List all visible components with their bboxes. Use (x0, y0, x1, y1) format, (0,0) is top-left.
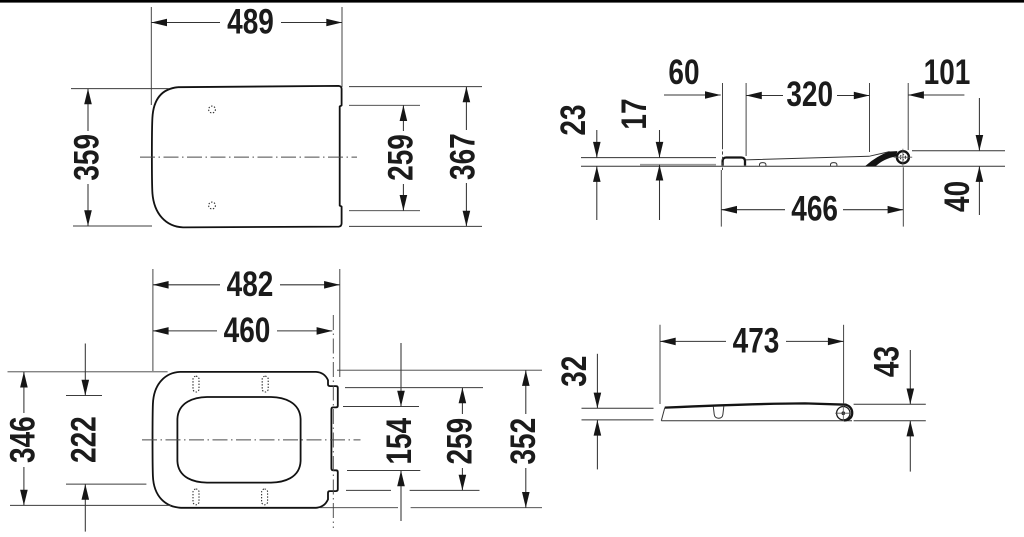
dim 367 arrow up (463, 87, 471, 103)
lid profile left end (661, 408, 665, 421)
lid profile top edge (thick) (665, 403, 852, 420)
svg-text:460: 460 (224, 310, 271, 350)
pin top reference line (912, 150, 1005, 152)
hinge arm (thick) (866, 152, 897, 166)
dim 222 ext top (66, 395, 102, 397)
svg-text:222: 222 (64, 416, 104, 463)
dim 320 line (746, 95, 783, 97)
hinge pin center mark (842, 411, 846, 415)
hinge pin inner circle (900, 155, 905, 160)
dim 154 ext bottom (347, 470, 420, 472)
svg-text:466: 466 (791, 189, 838, 229)
ext line bumper left (dashed through part) (722, 83, 724, 146)
svg-text:367: 367 (442, 133, 482, 180)
dim 259 arrow up (400, 105, 408, 121)
dim 473 ext right (843, 325, 845, 404)
seat underside gray line (640, 164, 716, 166)
svg-text:43: 43 (866, 346, 906, 377)
dim 32 arrow down (594, 393, 602, 409)
dim 43 shafts (909, 350, 911, 404)
svg-text:489: 489 (227, 1, 274, 41)
dim 466 ext left handled above, line (721, 209, 785, 211)
dim 259b ext top (345, 387, 483, 389)
dim 359 arrow up (84, 89, 92, 105)
lid profile bottom edge (661, 420, 852, 422)
dim 40 arrow down (976, 135, 984, 151)
bumper slot top-right (262, 376, 268, 392)
dim 482 arrow right (324, 281, 340, 289)
centerline horizontal (142, 439, 361, 441)
dim 367 line (465, 87, 467, 130)
dim 352 ext top (337, 369, 542, 371)
svg-text:473: 473 (733, 320, 780, 360)
dim 359 extension top (71, 88, 169, 90)
dim 17 shafts (659, 130, 661, 158)
dim 367 extension top (349, 86, 482, 88)
dim 320 arrow left (746, 92, 762, 100)
svg-text:259: 259 (381, 134, 421, 181)
dim 367 extension bottom (349, 225, 482, 227)
dim 482 ext left (152, 269, 154, 371)
dim 40 arrow up (976, 166, 984, 182)
dim 489 arrow left (151, 19, 167, 27)
svg-text:320: 320 (786, 74, 833, 114)
dim 473 arrow right (828, 338, 844, 346)
dim 460 arrow right (317, 327, 333, 335)
svg-text:23: 23 (553, 104, 593, 135)
dim 466 ext right (902, 167, 904, 226)
svg-text:352: 352 (503, 418, 543, 465)
dim 32 arrow up (594, 420, 602, 436)
dim 466 arrow right (888, 206, 904, 214)
ext line hinge arm start (869, 83, 871, 152)
dim 43 arrow down (907, 389, 915, 405)
dim 482 line (153, 284, 220, 286)
lid outline (top view) (152, 86, 342, 228)
dim 259 arrow down (400, 195, 408, 211)
dim 473 line (660, 340, 726, 342)
dim 259 line (402, 105, 404, 131)
dim 17 arrow up (656, 165, 664, 181)
hinge pin circle (837, 407, 850, 420)
dim 489 arrow right (326, 19, 342, 27)
svg-text:482: 482 (227, 264, 274, 304)
dim 60 arrow (705, 91, 721, 99)
svg-text:154: 154 (379, 418, 419, 465)
dim 473 arrow left (660, 338, 676, 346)
seat top reference line (581, 157, 716, 159)
dim 259 extension bottom (349, 210, 420, 212)
dim 346 ext bottom (10, 504, 171, 506)
dim 259b ext bottom (346, 489, 391, 491)
dim 359 extension bottom (73, 225, 152, 227)
dim 259b shafts (461, 388, 463, 414)
dim 259 extension top (349, 104, 420, 106)
centerline horizontal (140, 156, 357, 158)
top black border bar (0, 0, 1024, 3)
pan reference line bottom (581, 165, 1005, 167)
bumper pocket (u shape) (713, 406, 724, 418)
ext line bumper right (745, 83, 747, 156)
svg-text:17: 17 (614, 98, 654, 129)
dim 222 shafts (84, 344, 86, 396)
hinge pin crosshair (894, 156, 913, 158)
dim 101 arrow (908, 91, 924, 99)
svg-text:346: 346 (2, 416, 42, 463)
svg-text:359: 359 (66, 134, 106, 181)
dim 40 shafts (978, 98, 980, 151)
dim 346 shafts (23, 372, 25, 413)
bumper slot top-left (193, 376, 199, 392)
dim 259b arrow up (459, 388, 467, 404)
dim 32 shafts (596, 354, 598, 409)
dim 482 ext right (339, 269, 341, 377)
dim 154 arrow up (397, 471, 405, 487)
left reference line lower (582, 419, 654, 421)
dim 482 arrow left (153, 281, 169, 289)
seat ring outer outline (153, 372, 338, 508)
svg-text:40: 40 (937, 181, 977, 212)
hinge pin crosshair (835, 412, 851, 414)
dim 154 arrow down (397, 391, 405, 407)
dim 320 arrow right (854, 92, 870, 100)
slot mark left (760, 163, 766, 166)
dim 352 arrow down (522, 492, 530, 508)
bumper slot bottom-right (262, 489, 268, 505)
dim 222 ext bottom (66, 483, 146, 485)
screw hole lower (209, 202, 216, 209)
dim 460 line (153, 330, 217, 332)
dim 259b arrow down (459, 475, 467, 491)
dim 154 ext top (343, 406, 419, 408)
dim 60 line (664, 94, 721, 96)
svg-text:32: 32 (554, 356, 594, 387)
svg-text:101: 101 (924, 52, 971, 92)
dim 359 arrow down (84, 210, 92, 226)
right reference line upper (854, 403, 926, 405)
hinge pin outer ring (897, 151, 909, 163)
dim 17 arrow down (656, 142, 664, 158)
dim 346 ext top (8, 371, 168, 373)
dim 222 arrow down (82, 380, 90, 396)
bumper slot bottom-left (193, 489, 199, 505)
dim 23 shafts (596, 130, 598, 158)
dim 473 ext left (659, 325, 661, 404)
screw hole upper (209, 106, 216, 113)
dim 489 extension line left (150, 7, 152, 105)
dim 352 ext bottom (320, 507, 398, 509)
left reference line upper (582, 407, 654, 409)
slot mark right (831, 163, 837, 166)
dim 359 line (87, 89, 89, 131)
bumper (side view) (723, 158, 745, 166)
ext line pin right (907, 83, 909, 150)
seat ring inner opening (177, 397, 300, 483)
dim 23 arrow down (593, 142, 601, 158)
dim 23 arrow up (593, 166, 601, 182)
dim 43 arrow up (907, 421, 915, 437)
dim 346 arrow down (20, 490, 28, 506)
right reference line lower (854, 420, 926, 422)
dim 352 arrow up (522, 370, 530, 386)
dim 101 line (908, 94, 964, 96)
hinge axis centerline vertical (332, 315, 334, 528)
dim 346 arrow up (20, 372, 28, 388)
dim 352 shafts (525, 370, 527, 414)
dim 489 extension line right (341, 7, 343, 87)
dim 460 arrow left (153, 327, 169, 335)
dim 154 shafts (400, 343, 402, 407)
svg-text:60: 60 (668, 52, 699, 92)
dim 466 arrow left (721, 206, 737, 214)
svg-text:259: 259 (440, 418, 480, 465)
dim 222 arrow up (82, 484, 90, 500)
lid edge sloping line (746, 152, 890, 160)
dim 367 arrow down (463, 211, 471, 227)
dim 489 line (151, 22, 220, 24)
